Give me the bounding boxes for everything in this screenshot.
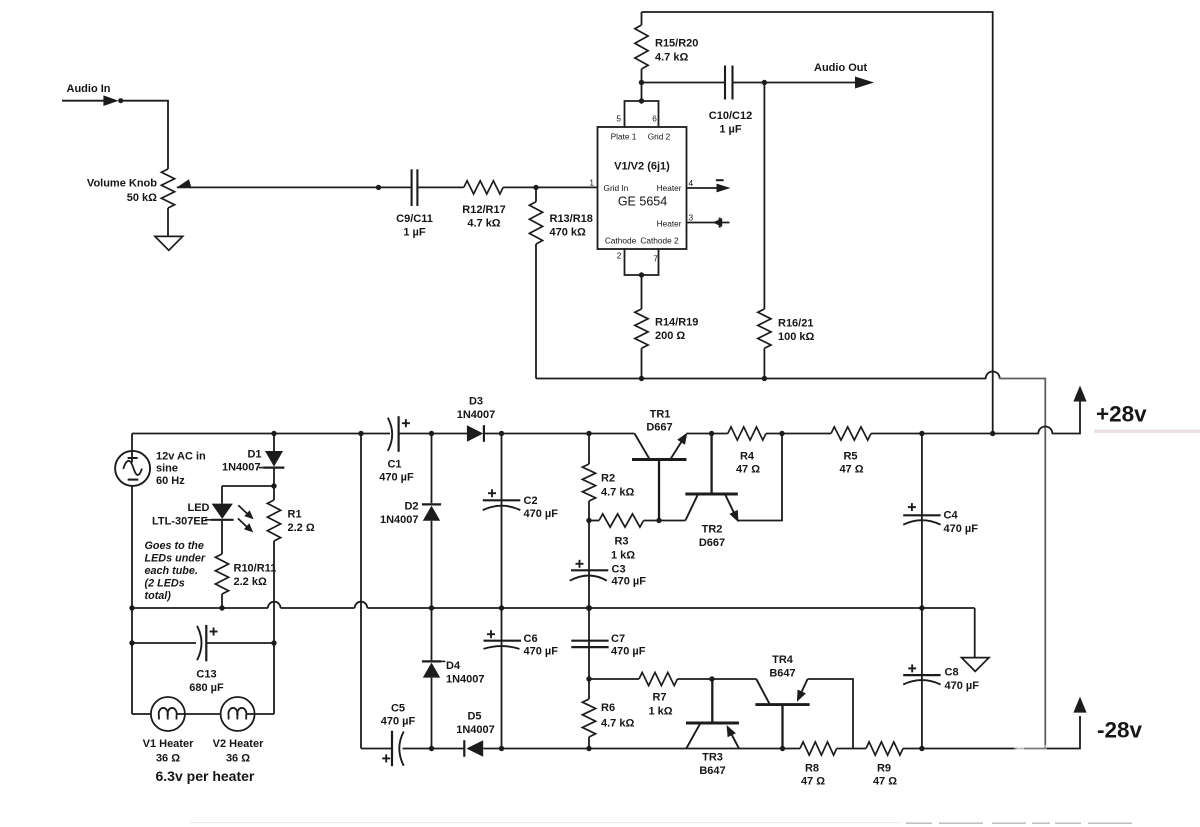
resistor R13/R18 bbox=[529, 202, 542, 244]
junction dot TR4 base bottom bbox=[780, 746, 785, 751]
svg-text:1 kΩ: 1 kΩ bbox=[648, 706, 672, 718]
svg-text:1 kΩ: 1 kΩ bbox=[611, 550, 635, 562]
svg-text:R10/R11: R10/R11 bbox=[234, 563, 277, 575]
wire R8 to R9 bbox=[837, 748, 866, 750]
diode D3 1N4007 bbox=[467, 425, 483, 442]
junction dot on grid wire bbox=[376, 185, 381, 190]
svg-text:470 µF: 470 µF bbox=[524, 646, 559, 658]
wire R6 top lead bbox=[588, 679, 590, 699]
wire R13 bottom to cathode return rail bbox=[535, 244, 537, 379]
resistor R7 1k bbox=[639, 672, 677, 685]
svg-text:Goes to the: Goes to the bbox=[145, 540, 204, 552]
wire pot wiper to C9 bbox=[177, 186, 411, 188]
svg-text:R6: R6 bbox=[601, 702, 615, 714]
svg-text:1N4007: 1N4007 bbox=[222, 462, 261, 474]
wire C13 rail right bbox=[206, 642, 274, 644]
svg-text:1 µF: 1 µF bbox=[719, 124, 742, 136]
svg-text:TR1: TR1 bbox=[650, 409, 671, 421]
svg-text:V2 Heater: V2 Heater bbox=[213, 738, 264, 750]
svg-text:680 µF: 680 µF bbox=[189, 682, 224, 694]
ground under pot bbox=[155, 236, 183, 250]
wire faint watermark line right of +28v bbox=[1094, 430, 1200, 434]
wire R2 top lead bbox=[588, 434, 590, 465]
wire watermark fade on -28 rail bbox=[1014, 745, 1047, 752]
svg-text:7: 7 bbox=[653, 254, 658, 264]
junction dot after input arrow bbox=[118, 98, 123, 103]
svg-text:C13: C13 bbox=[196, 669, 216, 681]
diode D2 1N4007 bbox=[422, 503, 441, 505]
svg-text:Cathode 2: Cathode 2 bbox=[640, 236, 679, 246]
diode D4 1N4007 bbox=[422, 660, 441, 662]
svg-text:R9: R9 bbox=[877, 763, 891, 775]
junction dot C13 left bbox=[129, 640, 134, 645]
svg-text:6.3v per heater: 6.3v per heater bbox=[156, 768, 255, 784]
svg-text:6: 6 bbox=[652, 114, 657, 124]
wire mid rail seg1 bbox=[132, 607, 268, 609]
junction dot D2 mid bbox=[429, 605, 434, 610]
wire heater rail 1 bbox=[132, 713, 159, 715]
svg-text:B647: B647 bbox=[699, 765, 725, 777]
wire R7 left lead bbox=[589, 678, 639, 680]
svg-text:TR2: TR2 bbox=[702, 524, 723, 536]
plus mark AC bbox=[128, 457, 138, 459]
wiper arrow of volume pot bbox=[177, 179, 192, 188]
wire TR2 emitter return bbox=[738, 434, 782, 521]
capacitor C13 680uF bbox=[197, 626, 201, 660]
wire R16 to rail bbox=[763, 348, 765, 378]
wire plate-node to pin bracket bbox=[641, 83, 643, 102]
lamp V2 Heater bbox=[221, 697, 255, 731]
junction dot D4 bottom bbox=[429, 746, 434, 751]
svg-text:D1: D1 bbox=[247, 449, 261, 461]
wire TR4 emitter return bbox=[808, 679, 853, 749]
wire pin 4 heater bbox=[687, 187, 719, 189]
wire top feed from R15 to right vertical bbox=[642, 12, 993, 434]
wire rail down to AC source bbox=[131, 434, 133, 463]
junction dot +28 feed bbox=[990, 431, 995, 436]
svg-text:-28v: -28v bbox=[1097, 718, 1143, 743]
wire R4 to R5 bbox=[766, 433, 831, 435]
wire C4 branch bbox=[921, 434, 923, 609]
junction dot C4 mid bbox=[919, 605, 924, 610]
svg-text:200 Ω: 200 Ω bbox=[655, 330, 685, 342]
svg-text:4.7 kΩ: 4.7 kΩ bbox=[601, 718, 634, 730]
svg-text:1N4007: 1N4007 bbox=[380, 514, 419, 526]
svg-text:470 µF: 470 µF bbox=[524, 508, 559, 520]
svg-text:470 µF: 470 µF bbox=[612, 576, 647, 588]
svg-text:C7: C7 bbox=[611, 633, 625, 645]
wire TR3 node to TR4 collector bbox=[712, 678, 756, 680]
svg-text:47 Ω: 47 Ω bbox=[736, 464, 760, 476]
svg-text:C2: C2 bbox=[524, 495, 538, 507]
svg-text:36 Ω: 36 Ω bbox=[226, 753, 250, 765]
wire C7 branch bbox=[588, 608, 590, 679]
minus mark AC bbox=[128, 479, 139, 481]
lamp V1 Heater bbox=[151, 697, 185, 731]
junction dot R16 bottom bbox=[762, 376, 767, 381]
arrowhead TR3 emitter bbox=[727, 725, 736, 737]
svg-text:12v AC in: 12v AC in bbox=[156, 451, 206, 463]
arrowhead Audio Out bbox=[855, 77, 874, 89]
svg-text:TR4: TR4 bbox=[772, 654, 794, 666]
svg-text:R8: R8 bbox=[805, 763, 819, 775]
wire D4 to bottom rail bbox=[431, 678, 433, 749]
wire mid rail seg2 bbox=[281, 607, 355, 609]
junction dot C13 right bbox=[271, 640, 276, 645]
wire R7 to TR3 base node bbox=[677, 678, 712, 680]
resistor R4 47 bbox=[728, 427, 766, 440]
wire +28v rail left segment bbox=[132, 433, 390, 435]
svg-text:sine: sine bbox=[156, 463, 178, 475]
wire TR4 base lead bbox=[781, 705, 783, 749]
resistor R14/R19 bbox=[635, 309, 648, 348]
wire heater rail 3 bbox=[246, 713, 274, 715]
junction dot C8 bottom bbox=[919, 746, 924, 751]
svg-text:1N4007: 1N4007 bbox=[456, 724, 495, 736]
wire LED to R10 bbox=[221, 520, 223, 554]
arrowhead -28v bbox=[1073, 697, 1086, 713]
svg-text:D5: D5 bbox=[467, 711, 481, 723]
wire C9 to R12 bbox=[418, 186, 464, 188]
svg-text:R1: R1 bbox=[288, 509, 302, 521]
resistor R9 47 bbox=[866, 742, 903, 755]
wire rail to D1 bbox=[273, 434, 275, 452]
wire hop over R1 branch bbox=[268, 602, 281, 608]
arrowhead +28v bbox=[1073, 386, 1086, 402]
wire faint scan artifact bottom bbox=[190, 822, 900, 824]
capacitor C8 470uF bbox=[903, 674, 940, 676]
sine symbol AC bbox=[123, 461, 142, 475]
junction dot C2 top bbox=[499, 431, 504, 436]
svg-text:R15/R20: R15/R20 bbox=[655, 38, 698, 50]
LED light arrow 2 bbox=[238, 518, 247, 527]
svg-text:Grid 2: Grid 2 bbox=[648, 132, 671, 142]
arrowhead TR4 emitter bbox=[797, 690, 806, 702]
svg-text:R2: R2 bbox=[601, 473, 615, 485]
svg-text:Heater: Heater bbox=[657, 219, 682, 229]
svg-text:1: 1 bbox=[589, 178, 594, 188]
svg-text:Grid In: Grid In bbox=[604, 183, 629, 193]
wire R14 to rail bbox=[641, 348, 643, 378]
svg-text:V1/V2 (6j1): V1/V2 (6j1) bbox=[614, 161, 670, 173]
svg-text:C10/C12: C10/C12 bbox=[709, 110, 752, 122]
junction dot x361 top bbox=[358, 431, 363, 436]
LED D LTL-307EE bbox=[212, 504, 233, 519]
diode D5 1N4007 bbox=[463, 740, 465, 757]
wire R10 to mid rail bbox=[221, 594, 223, 608]
svg-text:5: 5 bbox=[616, 114, 621, 124]
svg-text:GE 5654: GE 5654 bbox=[618, 195, 667, 209]
wire TR2 base lead bbox=[710, 434, 712, 495]
capacitor C4 470uF bbox=[903, 514, 940, 516]
svg-text:Plate 1: Plate 1 bbox=[611, 132, 637, 142]
svg-text:D667: D667 bbox=[699, 537, 725, 549]
wire R5 to +28v arrow bbox=[871, 433, 1039, 435]
svg-text:470 µF: 470 µF bbox=[945, 680, 980, 692]
junction dot R6 bottom bbox=[586, 746, 591, 751]
wire C13 rail left bbox=[132, 642, 196, 644]
transistor TR3 B647 bbox=[686, 722, 739, 725]
LED light arrow 1 bbox=[238, 505, 247, 514]
resistor R5 47 bbox=[831, 427, 871, 440]
svg-text:D4: D4 bbox=[446, 660, 461, 672]
svg-text:47 Ω: 47 Ω bbox=[801, 776, 825, 788]
transistor TR1 D667 bbox=[632, 458, 687, 461]
resistor R3 1k bbox=[599, 514, 644, 527]
wire pot to ground bbox=[167, 208, 169, 236]
resistor R1 2.2 bbox=[267, 500, 280, 541]
wire down to LED bbox=[221, 486, 223, 504]
svg-text:4.7 kΩ: 4.7 kΩ bbox=[467, 218, 500, 230]
junction dot D1 top bbox=[271, 431, 276, 436]
capacitor C3 470uF bbox=[571, 569, 608, 571]
capacitor C10/C12 bbox=[724, 66, 726, 100]
filament V1 bbox=[159, 708, 168, 720]
wire R3 to TR2 collector bbox=[644, 520, 686, 522]
junction dot plate bracket bbox=[639, 98, 644, 103]
junction dot D2 top bbox=[429, 431, 434, 436]
svg-text:R14/R19: R14/R19 bbox=[655, 317, 698, 329]
wire TR1 to R4 bbox=[687, 433, 728, 435]
wire C8 branch bbox=[921, 608, 923, 749]
wire input to volume pot bbox=[119, 101, 168, 169]
junction dot C6 bottom bbox=[499, 746, 504, 751]
wire out node down to R16 bbox=[763, 83, 765, 310]
capacitor C2 470uF bbox=[483, 499, 521, 501]
wire D2 to D4 bbox=[431, 521, 433, 660]
ground mid rail bbox=[962, 658, 990, 672]
svg-text:V1 Heater: V1 Heater bbox=[143, 738, 194, 750]
wire R1 bottom through to heater rail bbox=[273, 541, 275, 714]
svg-text:2.2 kΩ: 2.2 kΩ bbox=[234, 576, 267, 588]
wire TR1 base lead bbox=[658, 461, 660, 521]
junction dot cathode bracket bbox=[639, 272, 644, 277]
junction dot under D1 bbox=[271, 483, 276, 488]
wire mid rail ground drop bbox=[974, 608, 976, 658]
junction dot TR1 base node bbox=[656, 518, 661, 523]
wire R6 to bottom rail bbox=[588, 737, 590, 749]
junction dot TR2 base top bbox=[709, 431, 714, 436]
wire D3 to TR1 bbox=[484, 433, 635, 435]
arrowhead Audio In bbox=[103, 95, 118, 106]
wire cathode to R14 bbox=[641, 275, 643, 309]
resistor R6 4.7k bbox=[582, 699, 595, 737]
svg-text:50 kΩ: 50 kΩ bbox=[127, 192, 157, 204]
svg-text:(2 LEDs: (2 LEDs bbox=[145, 578, 185, 590]
svg-text:+28v: +28v bbox=[1096, 402, 1147, 427]
junction dot C3 mid bbox=[586, 605, 592, 611]
wire rail to -28 drop line bbox=[999, 379, 1045, 749]
junction dot R10 bottom bbox=[219, 605, 224, 610]
svg-text:B647: B647 bbox=[769, 668, 795, 680]
resistor R2 4.7k bbox=[582, 464, 595, 501]
svg-text:C4: C4 bbox=[944, 510, 959, 522]
junction dot TR3 base node bbox=[709, 676, 714, 681]
wire rail to +28v stem bbox=[1052, 401, 1080, 434]
svg-text:total): total) bbox=[145, 590, 172, 602]
svg-text:470 µF: 470 µF bbox=[944, 523, 979, 535]
svg-text:C3: C3 bbox=[612, 564, 626, 576]
wire bottom rail C5 to D5 bbox=[403, 748, 464, 750]
svg-text:470 µF: 470 µF bbox=[611, 646, 646, 658]
plus mark on pin 3 bbox=[719, 218, 721, 228]
resistor R15/R20 bbox=[641, 12, 643, 25]
svg-text:TR3: TR3 bbox=[702, 752, 723, 764]
svg-text:R13/R18: R13/R18 bbox=[550, 213, 593, 225]
transistor TR2 D667 bbox=[685, 493, 737, 496]
wire cathode pin bracket 2-7 bbox=[625, 249, 659, 275]
svg-text:470 µF: 470 µF bbox=[379, 472, 414, 484]
svg-text:2: 2 bbox=[617, 251, 622, 261]
wire split to LED branch bbox=[222, 485, 274, 487]
wire hop over +28 feed line bbox=[986, 372, 1000, 379]
junction dot R7 node bbox=[586, 676, 591, 681]
wire R3 left lead bbox=[589, 520, 599, 522]
capacitor C5 470uF bbox=[391, 731, 393, 767]
svg-text:Audio Out: Audio Out bbox=[814, 62, 867, 74]
AC source V1 12v circle bbox=[115, 451, 150, 486]
svg-text:C9/C11: C9/C11 bbox=[396, 213, 433, 225]
wire heater rail 2 bbox=[177, 713, 229, 715]
wire D1 to split junction bbox=[273, 468, 275, 486]
svg-text:D2: D2 bbox=[404, 501, 418, 513]
svg-text:1N4007: 1N4007 bbox=[446, 674, 485, 686]
svg-text:47 Ω: 47 Ω bbox=[873, 776, 897, 788]
wire hop +28 rail over -28 line bbox=[1038, 427, 1052, 434]
resistor R8 47 bbox=[800, 742, 837, 755]
wire bottom rail C5 left bbox=[361, 748, 391, 750]
svg-text:R5: R5 bbox=[843, 451, 857, 463]
junction dot at R13 top bbox=[533, 185, 538, 190]
svg-text:3: 3 bbox=[689, 213, 694, 223]
resistor R12/R17 bbox=[464, 181, 503, 194]
svg-text:C8: C8 bbox=[945, 667, 959, 679]
wire plate node to C10 bbox=[642, 82, 726, 84]
potentiometer Volume Knob 50k bbox=[161, 169, 174, 208]
junction dot R2 bottom node bbox=[586, 518, 591, 523]
filament V2 bbox=[228, 708, 237, 720]
svg-text:Cathode: Cathode bbox=[605, 236, 637, 246]
capacitor C7 470uF bbox=[571, 640, 608, 642]
svg-text:each tube.: each tube. bbox=[145, 565, 198, 577]
svg-text:2.2 Ω: 2.2 Ω bbox=[288, 522, 315, 534]
svg-text:4.7 kΩ: 4.7 kΩ bbox=[655, 52, 688, 64]
wire C6 branch bbox=[501, 608, 503, 749]
svg-text:R4: R4 bbox=[740, 451, 755, 463]
svg-text:470 µF: 470 µF bbox=[381, 716, 416, 728]
junction dot mid-left bbox=[129, 605, 134, 610]
wire bottom rail D5 to R8 bbox=[483, 748, 800, 750]
junction dot C2 mid bbox=[499, 605, 504, 610]
resistor R16/21 bbox=[758, 309, 771, 348]
arrowhead pin 3 bbox=[713, 218, 723, 227]
wire R12 to tube pin 1 bbox=[503, 186, 597, 188]
wire hop over left PSU vertical bbox=[355, 602, 368, 608]
svg-text:D3: D3 bbox=[469, 396, 483, 408]
wire R2 to C3 to mid bbox=[588, 501, 590, 608]
junction dot R2 top bbox=[586, 431, 591, 436]
wire C2 branch bbox=[501, 434, 503, 609]
svg-text:R3: R3 bbox=[614, 536, 628, 548]
svg-text:LED: LED bbox=[188, 502, 210, 514]
arrowhead TR1 emitter bbox=[677, 433, 687, 445]
arrowhead TR2 emitter bbox=[729, 510, 738, 522]
svg-text:R12/R17: R12/R17 bbox=[462, 204, 505, 216]
arrowhead pin 4 bbox=[717, 184, 731, 193]
capacitor C1 470uF bbox=[388, 418, 392, 451]
svg-text:LTL-307EE: LTL-307EE bbox=[152, 516, 208, 528]
svg-text:1 µF: 1 µF bbox=[403, 227, 426, 239]
resistor R10/R11 bbox=[215, 554, 228, 594]
svg-text:R7: R7 bbox=[652, 692, 666, 704]
svg-text:Heater: Heater bbox=[657, 183, 682, 193]
svg-text:1N4007: 1N4007 bbox=[457, 409, 496, 421]
svg-text:R16/21: R16/21 bbox=[778, 318, 813, 330]
wire +28v rail C1 to D3 bbox=[399, 433, 467, 435]
junction dot C4 top bbox=[919, 431, 924, 436]
node Audio In / input wire bbox=[62, 100, 104, 102]
capacitor C9/C11 bbox=[411, 169, 413, 206]
junction dot plate node bbox=[639, 80, 644, 85]
wire R1 branch top bbox=[273, 486, 275, 500]
wire cathode return rail bbox=[536, 378, 986, 380]
wire stub into AC circle bbox=[131, 451, 133, 463]
svg-text:4.7 kΩ: 4.7 kΩ bbox=[601, 487, 634, 499]
diode D1 1N4007 bbox=[265, 451, 283, 467]
transistor TR4 B647 bbox=[755, 703, 809, 706]
wire D2 branch top bbox=[431, 434, 433, 504]
svg-text:100 kΩ: 100 kΩ bbox=[778, 331, 815, 343]
svg-text:LEDs under: LEDs under bbox=[145, 553, 206, 565]
wire R9 to -28v bbox=[903, 716, 1080, 749]
wire pin 3 heater bbox=[687, 222, 730, 224]
junction dot TR2 emitter top bbox=[779, 431, 784, 436]
svg-text:C5: C5 bbox=[391, 703, 405, 715]
wire node to R13 bbox=[535, 187, 537, 201]
junction dot audio out node bbox=[762, 80, 767, 85]
junction dot R14 bottom bbox=[639, 376, 644, 381]
wire mid rail seg3 bbox=[367, 607, 974, 609]
wire C10 to audio out bbox=[733, 82, 857, 84]
svg-text:47 Ω: 47 Ω bbox=[839, 464, 863, 476]
svg-text:36 Ω: 36 Ω bbox=[156, 753, 180, 765]
svg-text:Audio In: Audio In bbox=[67, 83, 111, 95]
capacitor C6 470uF bbox=[484, 640, 522, 642]
wire AC bottom down left rail bbox=[131, 486, 133, 714]
svg-text:C6: C6 bbox=[524, 633, 538, 645]
minus mark above pin 4 bbox=[716, 179, 724, 181]
op-amp U1 tube V1/V2 box bbox=[598, 127, 687, 249]
svg-text:60 Hz: 60 Hz bbox=[156, 475, 185, 487]
svg-text:C1: C1 bbox=[387, 459, 401, 471]
svg-text:Volume Knob: Volume Knob bbox=[87, 178, 157, 190]
wire plate pin bracket 5-6 bbox=[625, 101, 659, 127]
svg-text:4: 4 bbox=[689, 178, 694, 188]
svg-text:D667: D667 bbox=[646, 422, 672, 434]
wire TR3 base lead bbox=[711, 679, 713, 723]
svg-text:470 kΩ: 470 kΩ bbox=[550, 227, 587, 239]
wire left PSU vertical x361 bbox=[360, 434, 362, 749]
